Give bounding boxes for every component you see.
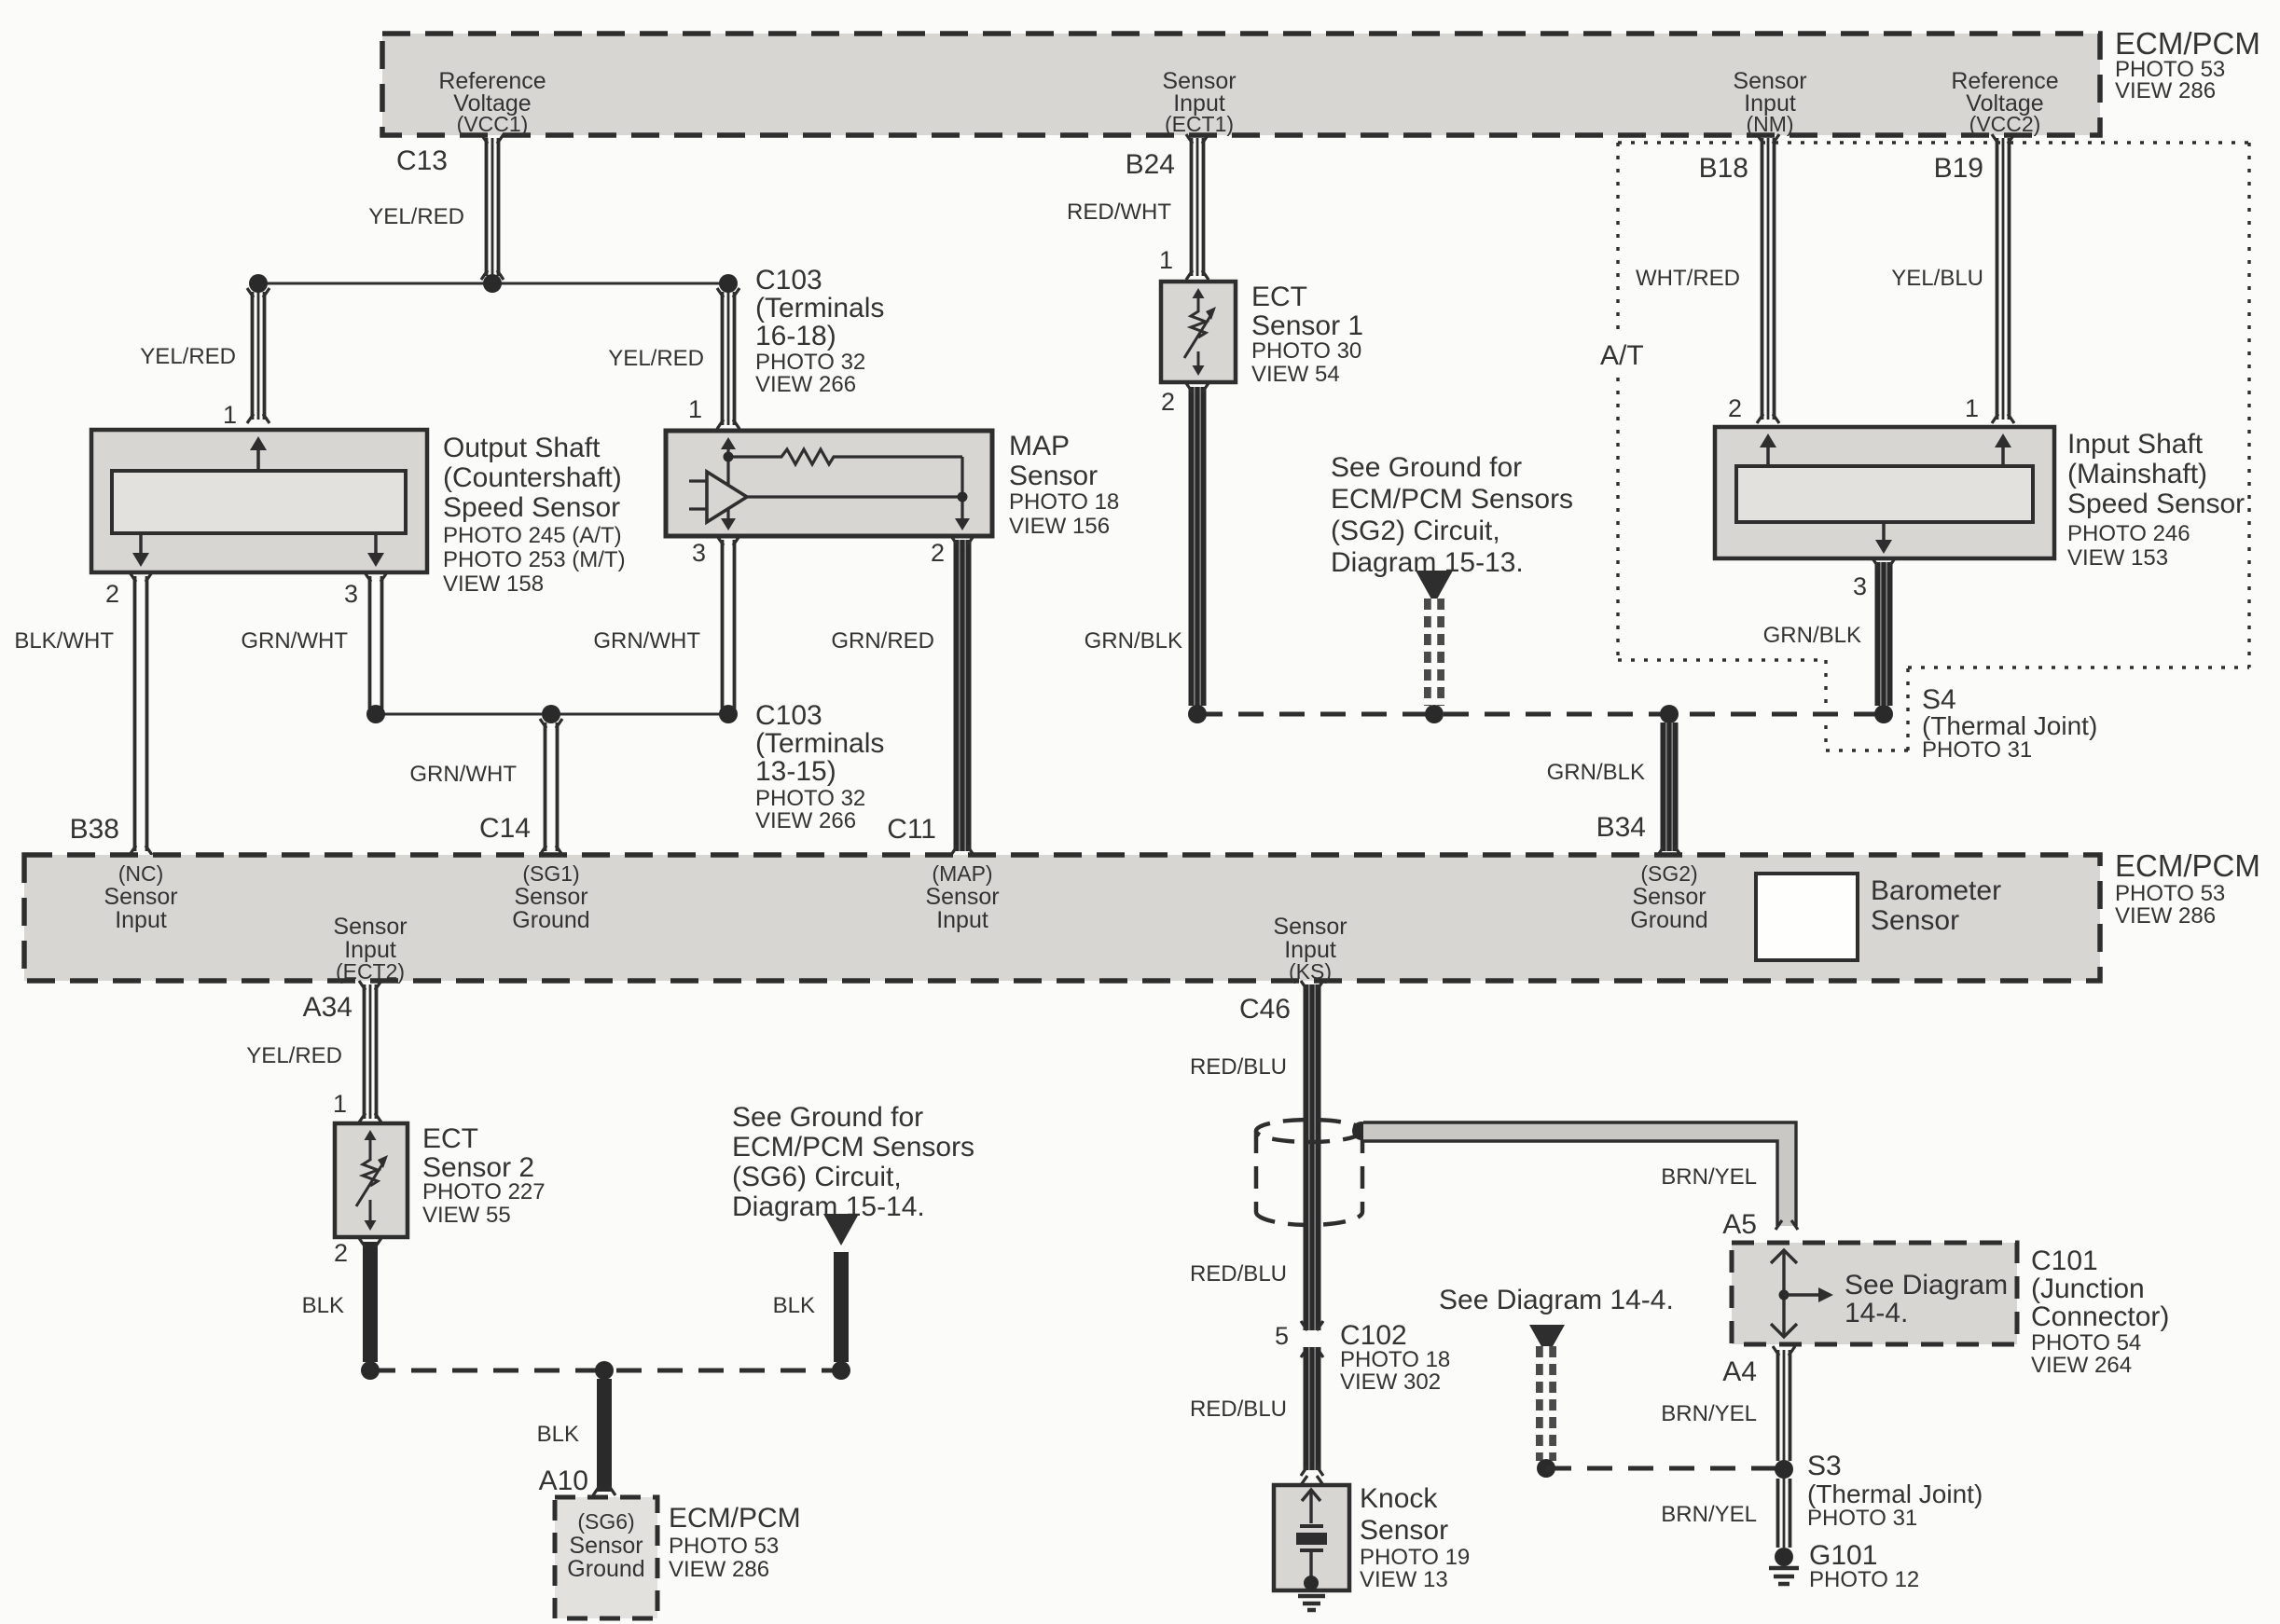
svg-text:VIEW 158: VIEW 158 <box>443 571 544 597</box>
svg-text:Input Shaft: Input Shaft <box>2067 429 2204 460</box>
off-page triangle SG6 <box>823 1214 859 1246</box>
svg-text:Ground: Ground <box>512 907 589 933</box>
svg-text:ECM/PCM: ECM/PCM <box>669 1503 801 1534</box>
C101 internal note See Diagram 14-4. <box>1845 1270 2008 1328</box>
junction dot (403,766) <box>366 705 385 723</box>
wire label BRN/YEL (G101) <box>1661 1502 1757 1527</box>
svg-text:PHOTO 227: PHOTO 227 <box>422 1179 546 1204</box>
connector label B38 <box>70 814 119 845</box>
svg-text:YEL/RED: YEL/RED <box>246 1043 342 1068</box>
wire label BLK/WHT <box>14 628 114 654</box>
connector label C11 <box>887 814 936 845</box>
C101 name label <box>2031 1246 2169 1378</box>
wire label YEL/RED (left) <box>140 344 236 369</box>
connector label A10 <box>539 1466 588 1496</box>
svg-text:(Countershaft): (Countershaft) <box>443 462 622 493</box>
wire GRN/BLK B34 to ECM SG2 <box>1658 723 1680 855</box>
svg-text:ECT: ECT <box>422 1123 478 1154</box>
pin number 2 (MAP) <box>931 539 945 567</box>
wire GRN/WHT output shaft pin 3 <box>365 572 387 709</box>
junction dot (591,766) <box>542 705 560 723</box>
wire BRN/YEL S3 to G101 <box>1778 1479 1790 1548</box>
svg-text:(Terminals: (Terminals <box>755 728 884 759</box>
wire BLK from SG6 triangle <box>834 1252 849 1362</box>
wire label BRN/YEL (A5) <box>1661 1164 1757 1190</box>
svg-text:See Diagram 14-4.: See Diagram 14-4. <box>1439 1285 1674 1315</box>
pin label (SG2) Sensor Ground <box>1630 861 1707 933</box>
off-page triangle SG2 <box>1416 571 1453 604</box>
svg-text:PHOTO 18: PHOTO 18 <box>1340 1347 1450 1372</box>
svg-text:GRN/BLK: GRN/BLK <box>1085 628 1182 654</box>
svg-text:1: 1 <box>1159 246 1173 274</box>
pin number 1 (ECT sensor 2) <box>333 1090 347 1118</box>
note See Ground for ECM/PCM Sensors (SG6) <box>732 1102 974 1222</box>
wire C13 YEL/RED from ECM VCC1 <box>481 134 504 280</box>
svg-text:Connector): Connector) <box>2031 1301 2169 1332</box>
node dot MAP vcc (781,490) <box>724 452 734 462</box>
wire label GRN/WHT (MAP pin3) <box>593 628 700 654</box>
svg-text:(VCC2): (VCC2) <box>1969 112 2041 136</box>
wire label YEL/RED (C13) <box>368 204 464 229</box>
junction dot (902,1470) <box>832 1361 850 1380</box>
svg-text:B18: B18 <box>1699 153 1748 184</box>
svg-text:VIEW 266: VIEW 266 <box>755 808 856 833</box>
Output Shaft Speed Sensor name label <box>443 433 626 597</box>
svg-text:PHOTO 53: PHOTO 53 <box>2115 881 2225 906</box>
ECM/PCM top name label <box>2115 26 2260 103</box>
svg-text:13-15): 13-15) <box>755 756 836 787</box>
ECM/PCM bottom connector bar <box>24 855 2100 981</box>
splice dot S3 (1913,1576) <box>1775 1460 1793 1479</box>
connector label B24 <box>1126 149 1175 180</box>
wire YEL/RED to Output Shaft Speed Sensor pin 1 <box>247 288 269 423</box>
dashed wire GRN/BLK ground bus y=766 <box>1197 712 1884 717</box>
svg-text:VIEW 286: VIEW 286 <box>669 1557 769 1582</box>
wire label RED/WHT <box>1067 200 1171 225</box>
ground G101 dot <box>1775 1548 1793 1566</box>
svg-text:PHOTO 54: PHOTO 54 <box>2031 1330 2141 1356</box>
svg-text:ECM/PCM: ECM/PCM <box>2115 848 2260 883</box>
connector label B34 <box>1596 812 1646 843</box>
svg-text:RED/BLU: RED/BLU <box>1190 1261 1287 1287</box>
svg-text:(SG2) Circuit,: (SG2) Circuit, <box>1331 516 1500 546</box>
svg-text:PHOTO 12: PHOTO 12 <box>1809 1567 1919 1592</box>
svg-text:(Terminals: (Terminals <box>755 293 884 323</box>
svg-text:16-18): 16-18) <box>755 321 836 351</box>
junction dot (1659,1576) <box>1537 1459 1555 1478</box>
wire YEL/RED C103 terminals 16-18 <box>717 288 739 429</box>
svg-text:GRN/BLK: GRN/BLK <box>1547 760 1645 785</box>
svg-text:Sensor: Sensor <box>1632 884 1706 910</box>
junction dot C103 (781,304) <box>719 274 738 293</box>
svg-text:C103: C103 <box>755 265 822 296</box>
svg-text:YEL/BLU: YEL/BLU <box>1891 266 1983 291</box>
ECM/PCM SG6 name label <box>669 1503 801 1582</box>
svg-text:B19: B19 <box>1934 153 1983 184</box>
svg-text:2: 2 <box>105 580 119 608</box>
svg-text:BLK: BLK <box>302 1293 344 1318</box>
svg-text:(NM): (NM) <box>1746 112 1793 136</box>
svg-text:(KS): (KS) <box>1289 959 1332 984</box>
Output Shaft (Countershaft) Speed Sensor box <box>91 430 427 572</box>
svg-text:RED/BLU: RED/BLU <box>1190 1397 1287 1422</box>
op-amp (MAP internal) <box>707 472 747 522</box>
svg-text:YEL/RED: YEL/RED <box>608 346 704 371</box>
wire GRN/WHT C14 to ECM SG1 <box>540 719 562 855</box>
wire GRN/BLK input shaft pin 3 to S4 <box>1872 558 1895 706</box>
connector label C103 (Terminals 16-18) <box>755 265 884 397</box>
pin label A5 <box>1722 1209 1757 1240</box>
wire BLK from ECT sensor 2 pin 2 <box>359 1238 381 1362</box>
svg-text:Sensor 1: Sensor 1 <box>1251 310 1363 341</box>
svg-text:GRN/RED: GRN/RED <box>831 628 934 654</box>
svg-text:VIEW 264: VIEW 264 <box>2031 1353 2132 1378</box>
svg-text:Sensor: Sensor <box>1009 461 1098 491</box>
note See Diagram 14-4 <box>1439 1285 1674 1315</box>
wire RED/BLU C46 from ECM KS <box>1301 981 1323 1208</box>
wire YEL/RED A34 from ECM ECT2 <box>359 981 381 1122</box>
dashed wire BLK ground bus y=1470 <box>370 1369 841 1373</box>
svg-text:(Thermal Joint): (Thermal Joint) <box>1922 711 2097 740</box>
svg-text:2: 2 <box>931 539 945 567</box>
pin number 1 (MAP sensor) <box>688 395 702 423</box>
svg-text:VIEW 286: VIEW 286 <box>2115 903 2216 929</box>
Knock Sensor box <box>1274 1485 1349 1590</box>
dashed wire to S3 <box>1546 1466 1784 1471</box>
svg-text:A5: A5 <box>1722 1209 1757 1240</box>
wire label RED/BLU (lower) <box>1190 1397 1287 1422</box>
wire label BRN/YEL (A4) <box>1661 1401 1757 1426</box>
svg-text:YEL/RED: YEL/RED <box>368 204 464 229</box>
svg-text:Knock: Knock <box>1360 1483 1438 1514</box>
svg-text:B34: B34 <box>1596 812 1646 843</box>
svg-text:See Ground for: See Ground for <box>1331 452 1522 483</box>
svg-text:3: 3 <box>692 539 706 567</box>
svg-text:1: 1 <box>333 1090 347 1118</box>
svg-text:(Thermal Joint): (Thermal Joint) <box>1807 1479 1983 1508</box>
svg-text:BRN/YEL: BRN/YEL <box>1661 1164 1757 1190</box>
svg-text:PHOTO 32: PHOTO 32 <box>755 786 865 811</box>
resistor (MAP internal) <box>728 449 962 464</box>
svg-text:Barometer: Barometer <box>1871 875 2001 906</box>
splice label S4 (Thermal Joint) <box>1922 684 2097 763</box>
wire RED/BLU C102 to knock sensor <box>1301 1347 1323 1485</box>
ECM/PCM top connector bar <box>382 34 2100 135</box>
svg-text:YEL/RED: YEL/RED <box>140 344 236 369</box>
svg-text:PHOTO 18: PHOTO 18 <box>1009 489 1119 515</box>
svg-text:Input: Input <box>115 907 167 933</box>
junction dot (1538,766) <box>1425 705 1444 723</box>
wire RED/WHT B24 from ECM ECT1 <box>1186 134 1209 280</box>
node dot MAP out (1032,533) <box>958 492 968 502</box>
wire label YEL/RED (C103) <box>608 346 704 371</box>
wire label GRN/RED <box>831 628 934 654</box>
svg-text:Ground: Ground <box>1630 907 1707 933</box>
svg-text:3: 3 <box>344 580 358 608</box>
svg-text:Speed Sensor: Speed Sensor <box>443 492 620 523</box>
svg-text:3: 3 <box>1853 572 1867 600</box>
svg-text:(VCC1): (VCC1) <box>457 112 529 136</box>
svg-text:PHOTO 245 (A/T): PHOTO 245 (A/T) <box>443 523 622 548</box>
svg-text:MAP: MAP <box>1009 431 1070 461</box>
pin number 3 (MAP) <box>692 539 706 567</box>
svg-text:Sensor: Sensor <box>925 884 999 910</box>
junction dot (397,1470) <box>361 1361 380 1380</box>
wire YEL/BLU B19 from ECM VCC2 <box>1992 134 2014 423</box>
wire RED/BLU between shield and C102 <box>1301 1208 1323 1330</box>
svg-text:Ground: Ground <box>567 1556 644 1582</box>
junction dot (1790,766) <box>1660 705 1679 723</box>
svg-text:A4: A4 <box>1722 1356 1757 1387</box>
Input Shaft (Mainshaft) Speed Sensor box <box>1715 427 2054 558</box>
svg-text:(NC): (NC) <box>118 861 164 886</box>
pin label Sensor Input (KS) <box>1273 914 1347 984</box>
junction dot (1284,766) <box>1188 705 1207 723</box>
A/T dotted region outline <box>1618 143 2249 750</box>
junction dot left (277,304) <box>249 274 268 293</box>
svg-text:GRN/WHT: GRN/WHT <box>593 628 700 654</box>
svg-text:(SG1): (SG1) <box>522 861 579 886</box>
svg-text:Sensor: Sensor <box>569 1533 643 1559</box>
MAP sensor name label <box>1009 431 1119 539</box>
connector label B18 <box>1699 153 1748 184</box>
connector label B19 <box>1934 153 1983 184</box>
pin number 3 (output shaft sensor) <box>344 580 358 608</box>
junction dot (648,1470) <box>595 1361 614 1380</box>
off-page triangle 14-4 <box>1529 1325 1565 1356</box>
svg-text:Sensor: Sensor <box>104 884 177 910</box>
svg-text:GRN/WHT: GRN/WHT <box>241 628 348 654</box>
svg-text:VIEW 55: VIEW 55 <box>422 1203 511 1228</box>
connector label C13 <box>396 145 448 176</box>
wire label GRN/WHT (pin3) <box>241 628 348 654</box>
svg-text:1: 1 <box>688 395 702 423</box>
svg-text:(Junction: (Junction <box>2031 1273 2145 1304</box>
wire label RED/BLU (middle) <box>1190 1261 1287 1287</box>
wire GRN/BLK from ECT sensor 1 pin 2 <box>1186 383 1209 706</box>
svg-text:1: 1 <box>223 401 237 429</box>
svg-text:Sensor: Sensor <box>1360 1515 1448 1546</box>
svg-text:ECM/PCM: ECM/PCM <box>2115 26 2260 61</box>
Knock Sensor name label <box>1360 1483 1470 1592</box>
svg-text:PHOTO 246: PHOTO 246 <box>2067 521 2190 546</box>
svg-text:C103: C103 <box>755 700 822 731</box>
junction dot C103 13-15 (781,766) <box>719 705 738 723</box>
wire label YEL/RED (A34) <box>246 1043 342 1068</box>
svg-text:C46: C46 <box>1239 994 1291 1025</box>
svg-text:C101: C101 <box>2031 1246 2098 1276</box>
wire label RED/BLU (upper) <box>1190 1054 1287 1080</box>
svg-text:VIEW 153: VIEW 153 <box>2067 545 2168 571</box>
pin number 5 (C102) <box>1275 1322 1289 1350</box>
svg-text:VIEW 13: VIEW 13 <box>1360 1567 1448 1592</box>
pin label (MAP) Sensor Input <box>925 861 999 933</box>
A/T label <box>1591 337 1652 371</box>
svg-text:A/T: A/T <box>1600 340 1644 371</box>
svg-text:ECT: ECT <box>1251 282 1307 312</box>
splice label S3 (Thermal Joint) <box>1807 1451 1983 1531</box>
Barometer Sensor box <box>1756 874 1858 960</box>
svg-text:(ECT1): (ECT1) <box>1165 112 1234 136</box>
wire label WHT/RED <box>1636 266 1740 291</box>
pin label Sensor Input (ECT1) <box>1162 68 1236 136</box>
connector C102 break <box>1301 1348 1323 1357</box>
pin label A4 <box>1722 1356 1757 1387</box>
wire label BLK (right) <box>773 1293 815 1318</box>
svg-text:GRN/WHT: GRN/WHT <box>409 762 517 787</box>
svg-text:S3: S3 <box>1807 1451 1842 1481</box>
junction dot S4 (2020,766) <box>1874 705 1893 723</box>
pin label (NC) Sensor Input <box>104 861 177 933</box>
svg-text:2: 2 <box>1728 394 1742 422</box>
svg-text:Speed Sensor: Speed Sensor <box>2067 489 2245 519</box>
MAP sensor box <box>666 431 992 536</box>
wire label BLK (A10) <box>537 1422 579 1447</box>
svg-text:C13: C13 <box>396 145 448 176</box>
svg-text:(SG6) Circuit,: (SG6) Circuit, <box>732 1162 902 1192</box>
wire label YEL/BLU <box>1891 266 1983 291</box>
svg-text:2: 2 <box>1161 388 1175 416</box>
svg-text:PHOTO 253 (M/T): PHOTO 253 (M/T) <box>443 547 626 572</box>
junction dot C13 (528,304) <box>483 274 502 293</box>
svg-text:1: 1 <box>1965 394 1979 422</box>
ECT Sensor 1 box (thermistor) <box>1161 282 1236 382</box>
svg-text:Sensor: Sensor <box>1273 914 1347 940</box>
wire label BLK (left) <box>302 1293 344 1318</box>
svg-text:2: 2 <box>334 1239 348 1267</box>
ECM/PCM (SG6) Sensor Ground box <box>555 1497 657 1618</box>
wire GRN/WHT MAP pin 3 to C103 13-15 <box>717 536 739 709</box>
pin number 2 (input shaft sensor) <box>1728 394 1742 422</box>
connector label C102 <box>1340 1320 1450 1395</box>
connector label C103 (Terminals 13-15) <box>755 700 884 833</box>
pin number 2 (ECT sensor 1) <box>1161 388 1175 416</box>
svg-text:PHOTO 31: PHOTO 31 <box>1807 1506 1917 1531</box>
pin number 2 (output shaft sensor) <box>105 580 119 608</box>
svg-text:PHOTO 32: PHOTO 32 <box>755 350 865 375</box>
wire label GRN/BLK (input shaft) <box>1763 623 1861 648</box>
pin number 1 (input shaft sensor) <box>1965 394 1979 422</box>
ECT Sensor 1 name label <box>1251 282 1363 387</box>
connector label C46 <box>1239 994 1291 1025</box>
svg-text:B38: B38 <box>70 814 119 845</box>
wire BRN/YEL A4 to S3 <box>1773 1346 1795 1461</box>
svg-text:VIEW 286: VIEW 286 <box>2115 78 2216 103</box>
svg-text:PHOTO 53: PHOTO 53 <box>669 1534 779 1559</box>
C101 (Junction Connector) box <box>1732 1243 2017 1344</box>
wire node line YEL/RED bus y=304 <box>258 282 728 285</box>
svg-text:BRN/YEL: BRN/YEL <box>1661 1401 1757 1426</box>
svg-text:ECM/PCM Sensors: ECM/PCM Sensors <box>732 1132 974 1163</box>
svg-text:VIEW 266: VIEW 266 <box>755 372 856 397</box>
svg-text:VIEW 54: VIEW 54 <box>1251 362 1340 387</box>
svg-text:Input: Input <box>936 907 988 933</box>
pin number 3 (input shaft sensor) <box>1853 572 1867 600</box>
svg-text:A10: A10 <box>539 1466 588 1496</box>
Input Shaft Speed Sensor name label <box>2067 429 2245 571</box>
svg-text:5: 5 <box>1275 1322 1289 1350</box>
shielded wire BRN/YEL to C101 A5 <box>1363 1122 1798 1230</box>
svg-text:PHOTO 30: PHOTO 30 <box>1251 338 1361 364</box>
svg-text:WHT/RED: WHT/RED <box>1636 266 1740 291</box>
shield symbol (dashed cylinder) <box>1256 1120 1362 1225</box>
svg-text:BLK/WHT: BLK/WHT <box>14 628 114 654</box>
wire BLK/WHT B38 to ECM (NC) <box>130 572 152 855</box>
junction dot shield (1462,1213) <box>1352 1122 1371 1140</box>
svg-text:VIEW 302: VIEW 302 <box>1340 1369 1441 1395</box>
svg-text:GRN/BLK: GRN/BLK <box>1763 623 1861 648</box>
svg-text:RED/WHT: RED/WHT <box>1067 200 1171 225</box>
svg-text:Output Shaft: Output Shaft <box>443 433 601 463</box>
striped wire to S3 bus <box>1536 1346 1556 1461</box>
wire BLK A10 to ECM SG6 <box>593 1379 615 1495</box>
svg-text:(SG2): (SG2) <box>1640 861 1697 886</box>
wire node line GRN/WHT y=766 <box>376 713 728 716</box>
svg-text:A34: A34 <box>303 992 352 1023</box>
ECM/PCM bottom name label <box>2115 848 2260 929</box>
svg-text:B24: B24 <box>1126 149 1175 180</box>
ECT Sensor 2 name label <box>422 1123 546 1228</box>
wire label GRN/BLK (B34) <box>1547 760 1645 785</box>
ground symbol G101 <box>1769 1568 1799 1584</box>
pin label Reference Voltage (VCC1) <box>438 68 546 136</box>
svg-text:VIEW 156: VIEW 156 <box>1009 514 1110 539</box>
wire WHT/RED B18 from ECM NM <box>1757 134 1779 423</box>
svg-text:See Ground for: See Ground for <box>732 1102 923 1133</box>
svg-text:Sensor: Sensor <box>333 914 407 940</box>
connector label C14 <box>479 813 531 844</box>
ECT Sensor 2 box (thermistor) <box>335 1123 408 1237</box>
pin number 2 (ECT sensor 2) <box>334 1239 348 1267</box>
pin label Sensor Input (ECT2) <box>333 914 407 984</box>
svg-text:C11: C11 <box>887 814 936 845</box>
svg-text:Sensor: Sensor <box>514 884 587 910</box>
svg-text:PHOTO 31: PHOTO 31 <box>1922 737 2032 763</box>
svg-text:BLK: BLK <box>773 1293 815 1318</box>
svg-text:(MAP): (MAP) <box>932 861 992 886</box>
wire GRN/RED C11 MAP pin 2 to ECM (MAP) <box>951 536 974 855</box>
ground symbol (knock sensor) <box>1298 1596 1325 1610</box>
svg-text:(SG6): (SG6) <box>577 1509 634 1534</box>
pin label Sensor Input (NM) <box>1733 68 1806 136</box>
ground label G101 <box>1809 1540 1919 1592</box>
wire label GRN/BLK (ECT1) <box>1085 628 1182 654</box>
svg-text:PHOTO 19: PHOTO 19 <box>1360 1545 1470 1570</box>
svg-text:C14: C14 <box>479 813 531 844</box>
note See Ground for ECM/PCM Sensors (SG2) <box>1331 452 1573 578</box>
svg-text:BRN/YEL: BRN/YEL <box>1661 1502 1757 1527</box>
pin label Reference Voltage (VCC2) <box>1951 68 2058 136</box>
svg-text:RED/BLU: RED/BLU <box>1190 1054 1287 1080</box>
pin number 1 (ECT sensor 1) <box>1159 246 1173 274</box>
svg-text:ECM/PCM Sensors: ECM/PCM Sensors <box>1331 484 1573 515</box>
svg-text:(Mainshaft): (Mainshaft) <box>2067 459 2207 489</box>
striped ground wire SG2 <box>1424 599 1444 706</box>
svg-text:See Diagram: See Diagram <box>1845 1270 2008 1301</box>
connector label A34 <box>303 992 352 1023</box>
svg-text:(ECT2): (ECT2) <box>336 959 405 984</box>
pin number 1 (output shaft sensor) <box>223 401 237 429</box>
svg-text:BLK: BLK <box>537 1422 579 1447</box>
Barometer Sensor label <box>1871 875 2001 936</box>
svg-text:14-4.: 14-4. <box>1845 1298 1908 1328</box>
svg-text:Sensor: Sensor <box>1871 905 1959 936</box>
wire label GRN/WHT (C14) <box>409 762 517 787</box>
pin label (SG1) Sensor Ground <box>512 861 589 933</box>
